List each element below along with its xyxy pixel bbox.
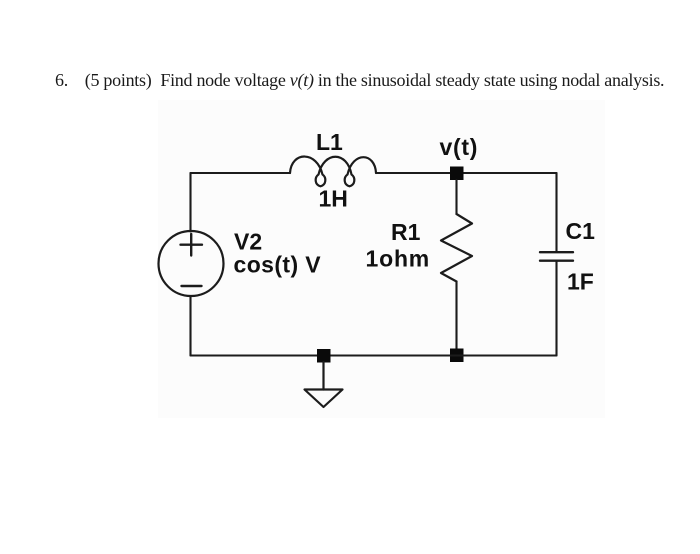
plus sign (181, 234, 203, 256)
svg-text:L1: L1 (316, 129, 343, 155)
svg-text:1H: 1H (319, 186, 348, 212)
node bottom resistor junction square (450, 349, 464, 363)
ground stem (322, 362, 324, 390)
svg-text:C1: C1 (566, 218, 596, 244)
scanned image background tint (158, 100, 605, 418)
svg-text:R1: R1 (391, 219, 421, 245)
wire node to resistor (455, 180, 457, 214)
minus sign (182, 285, 202, 287)
node ground junction square (317, 349, 331, 363)
node v(t) junction square (450, 167, 464, 181)
problem statement text (55, 69, 664, 91)
voltage source V2 circle (159, 231, 224, 296)
wire resistor to bottom node (455, 282, 457, 351)
svg-text:cos(t) V: cos(t) V (234, 252, 322, 278)
wire left-top (top rail to source) (189, 173, 191, 232)
inductor L1 (290, 157, 376, 187)
resistor R1 (441, 214, 472, 282)
capacitor C1 plates (540, 252, 573, 261)
svg-text:1ohm: 1ohm (366, 246, 431, 272)
wire top-right (inductor through node to right rail) (376, 172, 557, 174)
wire right-bottom (capacitor to bottom rail) (555, 261, 557, 356)
svg-text:1F: 1F (567, 269, 594, 295)
wire right-top (top rail to capacitor) (555, 173, 557, 252)
ground symbol triangle (305, 390, 343, 408)
svg-text:v(t): v(t) (440, 134, 479, 160)
wire bottom rail (191, 354, 557, 356)
wire left-bottom (source to bottom rail) (189, 296, 191, 356)
wire top-left (source to inductor) (191, 172, 291, 174)
